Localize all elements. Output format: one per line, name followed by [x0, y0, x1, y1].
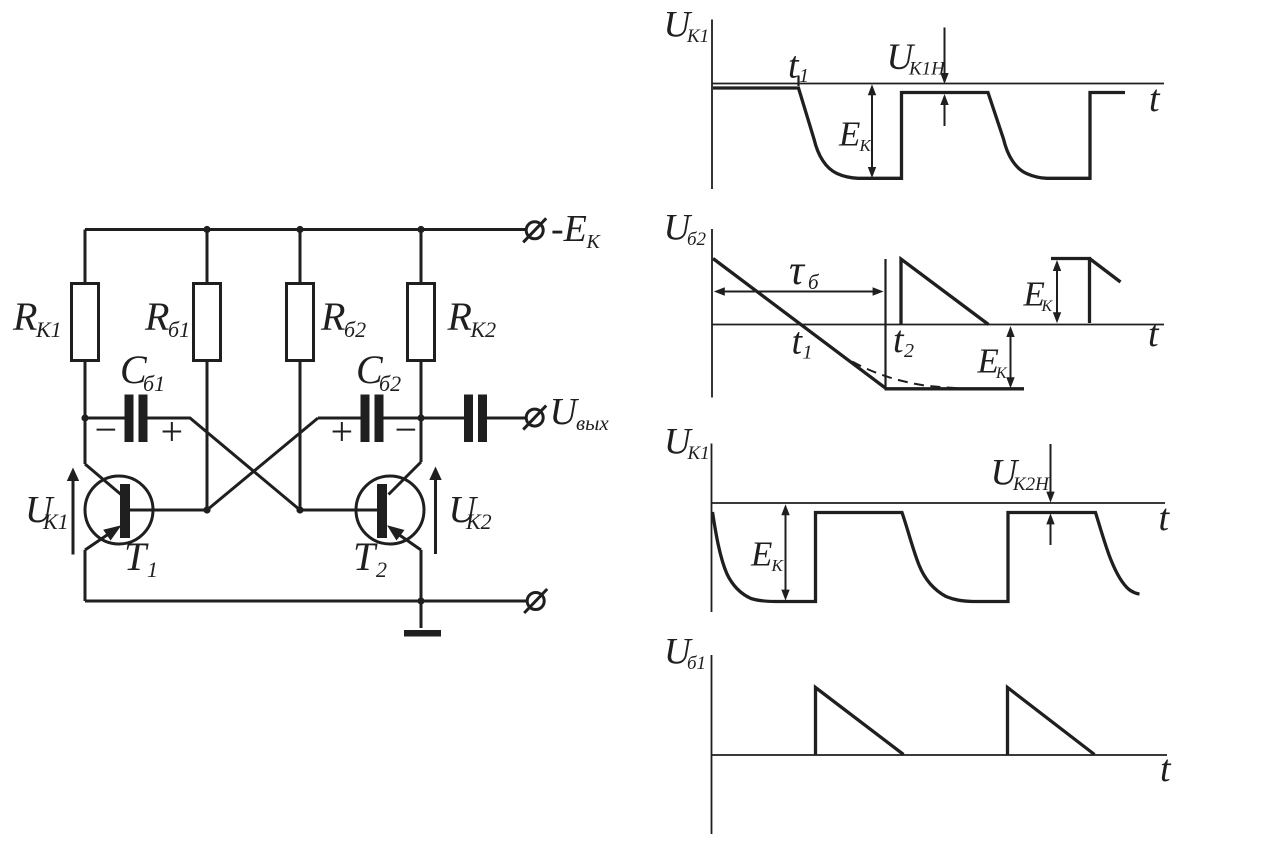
- svg-text:T: T: [353, 534, 378, 579]
- svg-text:K1: K1: [35, 317, 62, 342]
- svg-text:t: t: [1159, 497, 1171, 539]
- svg-text:б2: б2: [379, 371, 401, 396]
- svg-text:б2: б2: [687, 229, 707, 250]
- svg-text:K: K: [586, 231, 602, 253]
- svg-text:K2H: K2H: [1012, 474, 1050, 495]
- svg-text:K: K: [771, 556, 785, 575]
- svg-text:+: +: [328, 409, 355, 454]
- svg-text:1: 1: [147, 557, 158, 582]
- svg-text:K1: K1: [42, 509, 69, 534]
- svg-text:t: t: [1160, 748, 1172, 790]
- svg-text:б1: б1: [687, 653, 706, 674]
- svg-text:E: E: [838, 115, 860, 154]
- svg-text:R: R: [447, 294, 472, 339]
- svg-text:б: б: [808, 270, 820, 294]
- svg-text:τ: τ: [789, 248, 806, 294]
- svg-text:R: R: [12, 294, 37, 339]
- svg-text:-E: -E: [551, 208, 587, 250]
- svg-text:б2: б2: [344, 317, 366, 342]
- svg-text:K2: K2: [465, 509, 492, 534]
- svg-text:−: −: [92, 407, 119, 452]
- svg-text:K1: K1: [687, 443, 710, 464]
- svg-text:+: +: [158, 409, 185, 454]
- svg-text:2: 2: [376, 557, 387, 582]
- svg-text:t: t: [1149, 78, 1161, 120]
- svg-text:вых: вых: [576, 411, 609, 435]
- svg-text:K: K: [1041, 298, 1054, 315]
- svg-text:R: R: [144, 294, 169, 339]
- svg-text:2: 2: [904, 340, 914, 362]
- svg-text:R: R: [320, 294, 345, 339]
- svg-text:E: E: [750, 535, 772, 574]
- svg-text:t: t: [1148, 313, 1160, 355]
- svg-text:б1: б1: [168, 317, 190, 342]
- svg-text:K1H: K1H: [908, 59, 946, 80]
- svg-text:U: U: [550, 391, 580, 433]
- svg-text:K: K: [859, 136, 873, 155]
- svg-text:K1: K1: [686, 26, 709, 47]
- svg-text:1: 1: [799, 65, 809, 87]
- svg-text:T: T: [124, 534, 149, 579]
- svg-text:K: K: [995, 365, 1008, 382]
- svg-text:−: −: [392, 407, 419, 452]
- svg-text:1: 1: [803, 342, 813, 364]
- svg-text:б1: б1: [143, 371, 165, 396]
- svg-text:K2: K2: [470, 317, 497, 342]
